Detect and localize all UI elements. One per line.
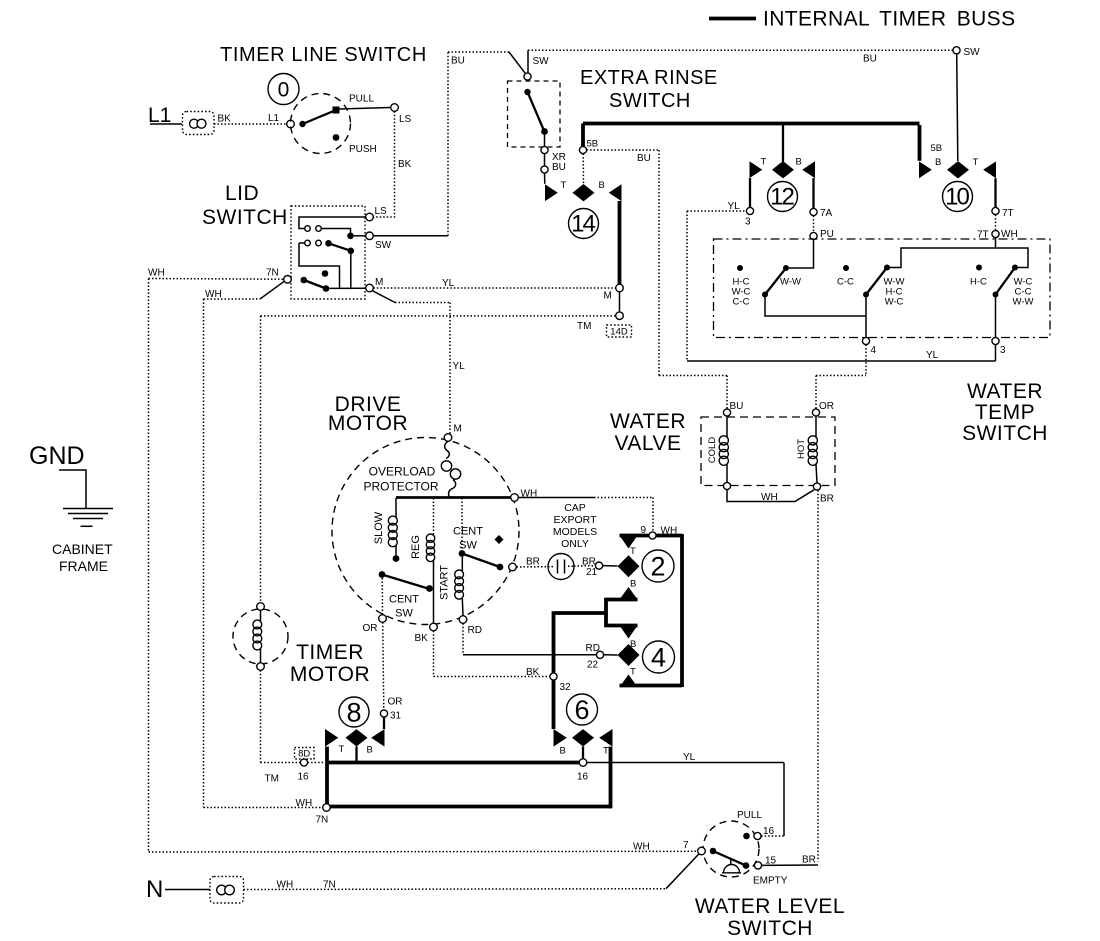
svg-text:WATER: WATER (610, 410, 686, 433)
wire capacitor to terminal 21 (574, 565, 595, 567)
svg-text:BU: BU (451, 56, 465, 67)
temp switch 1 blade (762, 265, 789, 298)
terminal 31 (380, 710, 387, 717)
legend buss sample line (709, 17, 756, 21)
labels W-W H-C W-C (884, 277, 905, 308)
solenoid HOT coil (808, 416, 817, 483)
terminal hot bottom BR (813, 483, 820, 490)
svg-text:RD: RD (468, 625, 482, 636)
svg-text:SW: SW (533, 56, 550, 67)
label CAP EXPORT MODELS ONLY (553, 502, 597, 550)
svg-text:INTERNAL TIMER BUSS: INTERNAL TIMER BUSS (763, 8, 1015, 31)
svg-text:WATER: WATER (967, 380, 1043, 403)
wire T of 10 down to 7T (994, 178, 996, 207)
wire pivot3 down to terminal 3 (995, 295, 997, 338)
contact 6 diamond (572, 729, 594, 746)
contact 4 diamond (618, 644, 640, 666)
svg-text:T: T (339, 744, 345, 755)
connector block L1 (183, 112, 215, 135)
upper contact dot (743, 833, 750, 840)
svg-text:8D: 8D (298, 749, 310, 760)
contact 10 T triangle (983, 161, 996, 178)
SECTION: timer line switch (148, 44, 427, 217)
temp switch 3 open contact (976, 265, 982, 271)
water level switch blade (710, 848, 750, 869)
wire WH valve common (727, 490, 814, 502)
terminal SW (extra rinse) (524, 73, 531, 80)
svg-text:M: M (454, 424, 462, 435)
svg-text:BR: BR (820, 494, 834, 505)
water valve dashed box (701, 417, 835, 486)
svg-text:3: 3 (745, 217, 751, 228)
svg-text:W-W: W-W (780, 277, 801, 288)
title TIMER MOTOR (290, 641, 370, 686)
svg-text:YL: YL (442, 278, 455, 289)
svg-text:21: 21 (586, 567, 598, 578)
wire LS into box (299, 217, 366, 229)
contact 14 diamond (573, 184, 595, 201)
svg-text:T: T (630, 667, 636, 678)
wire pivot2 down to terminal 4 (865, 295, 867, 338)
cam number circle 2 (642, 550, 674, 582)
overload protector squiggle and rings (441, 441, 460, 496)
svg-text:B: B (935, 157, 941, 168)
svg-text:GND: GND (29, 442, 85, 470)
svg-text:16: 16 (577, 772, 589, 783)
svg-text:BK: BK (526, 667, 540, 678)
labels W-C C-C W-W (1013, 277, 1034, 308)
wire diamond 6 to 16 (582, 747, 584, 760)
wire BU from lid SW up and over (373, 52, 525, 236)
svg-text:BU: BU (730, 401, 744, 412)
label CENT SW (389, 594, 419, 620)
cent sw lower blade (379, 571, 433, 592)
svg-text:BU: BU (863, 54, 877, 65)
buss drop to contact 10 (918, 125, 922, 161)
lid switch pole2 contacts (299, 240, 354, 288)
wire 15 to BR (762, 864, 818, 866)
terminal 7T (992, 207, 999, 214)
svg-text:COLD: COLD (707, 437, 718, 464)
wire PU into box (789, 240, 814, 268)
svg-text:ONLY: ONLY (561, 538, 589, 550)
cam number circle 8 (339, 697, 369, 728)
wire to LS (339, 108, 391, 110)
svg-text:WH: WH (661, 526, 678, 537)
label CABINET FRAME (52, 541, 113, 574)
svg-text:LID: LID (225, 182, 259, 205)
SECTION: cap and contacts 2-4 (434, 498, 683, 730)
contact 2 diamond (618, 555, 640, 577)
contact 12 B triangle (802, 161, 815, 178)
terminal SW (366, 232, 374, 240)
wire YL from 16 to water level (587, 763, 784, 837)
cam number circle 10 (943, 182, 973, 212)
svg-text:OR: OR (388, 697, 403, 708)
extra rinse dashed box (508, 81, 561, 147)
title DRIVE MOTOR (328, 393, 408, 435)
buss horizontal 16 run (308, 762, 580, 764)
svg-text:HOT: HOT (796, 439, 807, 459)
svg-text:L1: L1 (268, 113, 280, 124)
lid switch pole3 contacts (301, 270, 366, 292)
temp switch 1 open contact (737, 265, 743, 271)
wire YL from 3 of 12 to 3 of temp switch (687, 211, 996, 361)
svg-text:SWITCH: SWITCH (609, 90, 691, 112)
svg-text:3: 3 (1000, 345, 1006, 356)
svg-text:REG: REG (410, 535, 422, 559)
svg-text:7N: 7N (323, 880, 336, 891)
lid switch dotted box (291, 206, 365, 299)
timer line switch blade (299, 107, 339, 128)
terminal BU (723, 409, 730, 416)
svg-text:TIMER: TIMER (296, 641, 364, 664)
wire WH into 7N (204, 807, 323, 809)
contact 6 T triangle (599, 729, 612, 747)
svg-text:WH: WH (205, 289, 222, 300)
terminal BK (430, 623, 438, 631)
svg-text:SWITCH: SWITCH (202, 206, 288, 229)
buss wire B of 14 down to M (618, 201, 622, 284)
wire buss SW to contact 10 (528, 50, 953, 73)
terminal 22 RD (596, 651, 603, 658)
SECTION: legend (709, 8, 1015, 31)
terminal cold bottom (723, 482, 730, 489)
wire WH lower (204, 281, 285, 299)
svg-text:T: T (761, 157, 767, 168)
wire WH 7N neutral run (244, 854, 700, 890)
terminal 7N (323, 804, 331, 812)
winding REG (426, 498, 434, 623)
terminal 15 (754, 862, 761, 869)
contact 12 diamond (772, 161, 794, 178)
terminal LS (366, 213, 374, 221)
wire WH to terminal 9 (519, 498, 654, 532)
svg-text:7N: 7N (266, 268, 279, 279)
contact dot PUSH (333, 134, 340, 141)
wire OR from motor to 31 (383, 622, 384, 710)
svg-text:B: B (599, 180, 605, 191)
svg-text:EXPORT: EXPORT (554, 514, 598, 526)
svg-text:VALVE: VALVE (614, 432, 681, 455)
contact 2-4 buss box right (680, 534, 684, 687)
terminal M (616, 284, 624, 292)
buss drop to 5B (581, 124, 585, 147)
SECTION: drive motor (328, 393, 537, 644)
svg-text:BR: BR (526, 557, 540, 568)
svg-text:BR: BR (802, 855, 816, 866)
temp switch 2 blade (863, 265, 890, 298)
svg-text:YL: YL (926, 350, 939, 361)
lid switch pole1 contacts (305, 226, 366, 239)
terminal RD (459, 616, 467, 624)
svg-text:W-W: W-W (1013, 297, 1034, 308)
svg-text:H-C: H-C (970, 277, 987, 288)
wire 7A to PU (813, 216, 815, 233)
svg-text:32: 32 (560, 682, 572, 693)
svg-text:14: 14 (571, 211, 595, 238)
terminal PU (810, 232, 817, 239)
svg-text:LS: LS (399, 114, 412, 125)
dashed switch circle (291, 94, 351, 154)
svg-text:BU: BU (552, 162, 566, 173)
svg-text:OR: OR (363, 623, 378, 634)
wire BR to capacitor (517, 566, 549, 568)
contact 12 T triangle (750, 161, 763, 178)
svg-text:FRAME: FRAME (59, 558, 108, 574)
terminal L1 of switch (287, 120, 295, 128)
wire timer motor to 16 (261, 670, 301, 762)
terminal 16 (TM) (300, 759, 307, 766)
svg-text:16: 16 (298, 772, 310, 783)
svg-text:LS: LS (375, 206, 388, 217)
svg-text:WH: WH (277, 880, 294, 891)
svg-text:M: M (604, 291, 612, 302)
terminal WH (511, 494, 519, 502)
wire down to timer motor (260, 316, 262, 603)
svg-text:T: T (561, 180, 567, 191)
winding SLOW (388, 498, 397, 555)
svg-text:MOTOR: MOTOR (328, 412, 408, 435)
wire WH second vertical (203, 299, 205, 808)
svg-text:22: 22 (587, 660, 599, 671)
gnd lead wire (59, 470, 86, 509)
terminal LS (391, 104, 399, 112)
capacitor (548, 554, 574, 580)
svg-text:WH: WH (148, 268, 165, 279)
SECTION: extra rinse switch (373, 50, 953, 236)
wire BK from motor to 32 (434, 631, 550, 677)
svg-text:B: B (367, 745, 373, 756)
svg-text:CENT: CENT (453, 526, 483, 538)
terminal 16 (579, 759, 587, 767)
terminal 4 (862, 337, 869, 344)
svg-text:PROTECTOR: PROTECTOR (363, 480, 438, 494)
wire WH to 7N (149, 278, 284, 281)
terminal 5B (579, 146, 586, 153)
SECTION: contacts 6-8 and timer motor (204, 603, 785, 836)
terminal 7A (810, 208, 817, 215)
terminal 3 (992, 337, 999, 344)
contact 4 T triangle (620, 675, 638, 688)
svg-text:10: 10 (945, 184, 969, 211)
svg-text:RD: RD (586, 643, 600, 654)
svg-text:SWITCH: SWITCH (727, 917, 813, 940)
wire 5B to contact 14 diamond (582, 154, 584, 184)
buss T of 8 down (325, 747, 329, 807)
svg-text:SW: SW (964, 47, 981, 58)
svg-text:CABINET: CABINET (52, 541, 113, 557)
wire feed to cent sw pivot (461, 498, 463, 550)
contact 6 B triangle (554, 729, 567, 747)
svg-text:0: 0 (278, 79, 290, 102)
wire BK from connector to switch (214, 123, 287, 125)
terminal 3 (746, 207, 753, 214)
label CENT SW upper (453, 526, 483, 552)
terminal 7N (284, 276, 292, 284)
wire B of 12 down to 7A (812, 178, 814, 208)
wire pivot to OR (381, 578, 383, 615)
wire WH long vertical left (148, 279, 150, 853)
SECTION: lid switch (148, 182, 616, 852)
svg-text:M: M (375, 277, 383, 288)
terminal OR (379, 615, 387, 623)
terminal SW (contact 10) (953, 47, 960, 54)
svg-text:TIMER LINE SWITCH: TIMER LINE SWITCH (220, 44, 427, 66)
terminal 9 (649, 532, 656, 539)
diaphragm dome (722, 859, 741, 873)
svg-text:9: 9 (641, 525, 647, 536)
cam number circle 4 (643, 641, 675, 673)
terminal M (motor) (444, 434, 452, 442)
svg-text:START: START (439, 565, 451, 600)
label BR 21 (582, 557, 598, 579)
wire B of 8 up to 31 (383, 717, 385, 729)
svg-text:2: 2 (650, 552, 665, 582)
svg-text:4: 4 (871, 345, 877, 356)
svg-text:YL: YL (453, 361, 466, 372)
terminal TM (616, 312, 624, 320)
contact 8 T triangle (325, 729, 338, 747)
svg-text:EXTRA RINSE: EXTRA RINSE (580, 67, 718, 89)
wire diamond 8 to buss (355, 747, 357, 763)
wire WH long bottom (149, 850, 698, 853)
label OVERLOAD PROTECTOR (363, 465, 438, 494)
svg-text:T: T (973, 157, 979, 168)
temp switch 3 blade (993, 265, 1019, 298)
contact dot slow (393, 555, 400, 562)
svg-text:BK: BK (398, 159, 412, 170)
extra rinse switch blade (524, 89, 548, 147)
water level switch dashed circle (703, 821, 759, 877)
wire 7T into box (995, 238, 997, 248)
contact 10 B triangle (919, 161, 932, 178)
svg-text:CAP: CAP (564, 502, 586, 514)
wire L1 lead (150, 123, 182, 125)
svg-text:B: B (630, 579, 636, 590)
ground symbol (63, 509, 113, 527)
svg-text:5B: 5B (931, 143, 943, 154)
wire BK down to lid switch LS (373, 111, 394, 217)
svg-text:OVERLOAD: OVERLOAD (369, 465, 436, 479)
buss jog between 2 and 4 (554, 598, 638, 627)
svg-text:N: N (146, 876, 163, 903)
svg-text:T: T (630, 546, 636, 557)
SECTION: gnd (29, 442, 113, 574)
svg-text:WH: WH (633, 842, 650, 853)
wire 7T to 7T/WH (995, 215, 997, 231)
svg-text:7A: 7A (820, 208, 833, 219)
terminal 16 (754, 832, 761, 839)
contact 14 B triangle (609, 184, 622, 201)
contact 14 T triangle (545, 184, 558, 201)
temp switch 2 open contact (843, 265, 849, 271)
svg-text:6: 6 (574, 695, 589, 725)
cam number circle 0 (268, 74, 299, 105)
open contact diamond (495, 535, 504, 544)
title WATER TEMP SWITCH (962, 380, 1048, 445)
svg-text:C-C: C-C (837, 277, 854, 288)
svg-text:PUSH: PUSH (349, 144, 377, 155)
internal timer buss main run (583, 122, 920, 126)
svg-text:T: T (603, 746, 609, 757)
contact 8 diamond (346, 729, 368, 746)
SECTION: timer contacts top (545, 47, 1018, 409)
svg-text:SW: SW (395, 608, 413, 620)
buss T of 6 down and left (327, 747, 612, 809)
svg-text:C-C: C-C (733, 297, 750, 308)
drive motor dashed circle (332, 438, 519, 625)
svg-text:PULL: PULL (737, 810, 762, 821)
contact 2-4 buss box bottom (620, 684, 683, 688)
svg-text:7: 7 (683, 840, 689, 851)
title WATER LEVEL SWITCH (695, 895, 845, 940)
terminal 7T/WH (992, 230, 999, 237)
svg-text:31: 31 (390, 711, 402, 722)
wire YL from M to timer M (373, 287, 615, 289)
svg-text:7N: 7N (316, 815, 329, 826)
svg-text:YL: YL (683, 752, 696, 763)
wire SW down to contact 10 diamond (957, 54, 958, 161)
wire N lead (165, 889, 210, 891)
svg-text:WH: WH (761, 492, 778, 503)
winding START (455, 557, 464, 616)
terminal XR (541, 146, 548, 153)
svg-text:SLOW: SLOW (373, 511, 385, 544)
wire BR down to water level switch (817, 490, 819, 861)
svg-text:W-C: W-C (885, 297, 904, 308)
cam number circle 6 (567, 694, 598, 725)
buss drop to contact 12 (782, 125, 784, 162)
motor top feed line (396, 496, 514, 499)
labels H-C W-C C-C (732, 277, 751, 308)
contact 2 B triangle (620, 587, 638, 600)
svg-text:BK: BK (415, 633, 429, 644)
svg-text:TM: TM (265, 774, 279, 785)
timer motor dashed circle (233, 609, 288, 664)
terminal BR (509, 563, 517, 571)
terminal OR (812, 409, 819, 416)
wire BU from 5B to water valve (587, 150, 727, 409)
wire T of 12 down to terminal 3 (749, 178, 751, 207)
svg-text:BK: BK (218, 114, 232, 125)
svg-text:PULL: PULL (349, 94, 374, 105)
svg-text:EMPTY: EMPTY (753, 876, 788, 887)
svg-text:SWITCH: SWITCH (962, 422, 1048, 445)
svg-text:7T: 7T (1002, 208, 1014, 219)
svg-text:5B: 5B (587, 139, 599, 150)
svg-text:MOTOR: MOTOR (290, 663, 370, 686)
buss 32 down to contact 6 (552, 611, 556, 729)
svg-text:16: 16 (763, 826, 775, 837)
svg-text:B: B (796, 157, 802, 168)
wire 22 to diamond 4 (604, 654, 618, 656)
cent sw upper blade (459, 550, 504, 570)
terminal 7 (698, 847, 706, 855)
connector block N (210, 877, 244, 904)
svg-text:B: B (560, 746, 566, 757)
svg-text:WATER LEVEL: WATER LEVEL (695, 895, 845, 918)
svg-text:OR: OR (819, 401, 834, 412)
wire TM horizontal (261, 315, 616, 317)
wire M to TM (619, 292, 621, 312)
cam number circle 12 (768, 182, 798, 212)
wire OR from terminal 4 to valve (816, 345, 866, 409)
water temp switch dashed box (714, 239, 1051, 338)
SECTION: water temp switch (687, 211, 1050, 445)
wire pivot1 to terminal 4 (765, 297, 866, 316)
wire XR to contact 14 (544, 173, 546, 184)
